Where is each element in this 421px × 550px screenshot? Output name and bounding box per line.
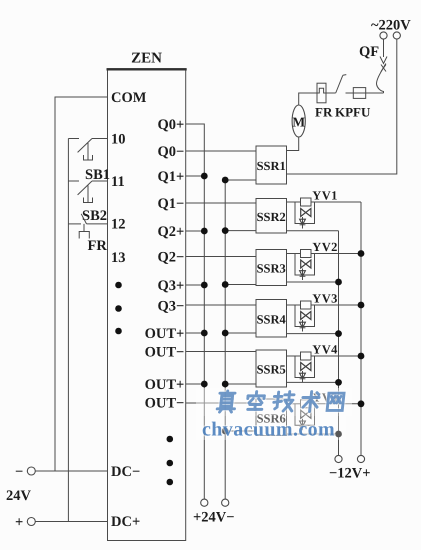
wire SSR output+ to YV3 coil xyxy=(287,304,301,306)
circuit breaker QF xyxy=(377,39,387,93)
terminal circle supply minus xyxy=(27,467,35,475)
thermal relay contact FR xyxy=(79,214,107,239)
wire OUT+ (1st) to left bus xyxy=(186,332,205,334)
wire minus bus (-12V) xyxy=(338,231,340,456)
svg-text:−12V+: −12V+ xyxy=(329,466,371,482)
flyback diode YV2 xyxy=(300,269,306,281)
wire supply plus to DC+ xyxy=(35,521,107,523)
wire SSR output- YV1 to minus bus xyxy=(287,230,339,232)
svg-text:+24V−: +24V− xyxy=(193,510,235,526)
wire YV1 coil to plus bus xyxy=(311,201,361,203)
wire OUT+ (2nd) to left bus xyxy=(186,383,205,385)
valve body YV3 xyxy=(301,312,311,320)
wire SSR1 output to 220V N xyxy=(287,39,397,174)
PLC ZEN box xyxy=(107,69,187,541)
svg-text:Q0+: Q0+ xyxy=(158,117,185,133)
wire Q3+ to left bus xyxy=(186,284,205,286)
svg-text:−: − xyxy=(15,464,23,480)
svg-text:Q2+: Q2+ xyxy=(158,224,185,240)
wire return bus to SSR6 input- xyxy=(225,430,256,432)
wire SSR output+ to YV2 coil xyxy=(287,253,301,255)
solid state relay SSR3 xyxy=(256,250,287,286)
svg-text:YV3: YV3 xyxy=(312,292,338,306)
ellipsis dots (outputs continuation) xyxy=(167,436,174,486)
flyback diode YV3 xyxy=(300,320,306,332)
wire Q2+ to left bus xyxy=(186,230,205,232)
solid state relay SSR1 xyxy=(256,146,287,184)
svg-text:DC−: DC− xyxy=(111,464,140,480)
wire return bus to SSR5 input- xyxy=(225,383,256,385)
wire return bus to SSR3 input- xyxy=(225,284,256,286)
flyback diode loop YV1 xyxy=(295,202,315,224)
wire Q0− to SSR input+ xyxy=(186,150,256,152)
svg-text:SSR2: SSR2 xyxy=(257,210,286,224)
wire FU to KP xyxy=(346,92,354,94)
svg-text:Q3+: Q3+ xyxy=(158,278,185,294)
svg-text:KP: KP xyxy=(335,105,353,120)
pushbutton SB2 (NO contact) xyxy=(78,181,108,203)
solenoid coil YV2 xyxy=(301,250,312,258)
svg-text:COM: COM xyxy=(111,90,147,106)
solid state relay SSR2 xyxy=(256,199,287,234)
terminal circle -12V xyxy=(335,455,342,462)
svg-text:24V: 24V xyxy=(6,488,32,504)
wire FR to motor xyxy=(299,93,317,105)
solid state relay SSR6 xyxy=(256,399,287,436)
terminal circle +24V xyxy=(201,499,208,506)
flyback diode YV1 xyxy=(300,217,306,229)
wire SSR output+ to YV1 coil xyxy=(287,201,301,203)
solid state relay SSR4 xyxy=(256,300,287,338)
flyback diode YV4 xyxy=(300,371,306,383)
solenoid coil YV1 xyxy=(301,198,312,206)
valve body YV5 xyxy=(301,410,311,418)
flyback diode loop YV4 xyxy=(295,356,315,378)
svg-text:Q0−: Q0− xyxy=(158,144,185,160)
wire YV2 coil to plus bus xyxy=(311,253,361,255)
terminal circle 24V minus xyxy=(222,499,229,506)
wire row 12 left segment xyxy=(68,223,81,225)
svg-text:OUT−: OUT− xyxy=(145,396,185,412)
flyback diode YV5 xyxy=(300,419,306,431)
wire Q3− to SSR input+ xyxy=(186,304,256,306)
solenoid coil YV4 xyxy=(301,352,312,360)
ellipsis dots (inputs continuation) xyxy=(115,282,122,335)
svg-text:SSR5: SSR5 xyxy=(257,363,286,377)
svg-text:QF: QF xyxy=(359,44,379,60)
svg-text:Q1+: Q1+ xyxy=(158,169,185,185)
svg-text:ZEN: ZEN xyxy=(131,51,162,67)
svg-text:OUT+: OUT+ xyxy=(145,326,185,342)
wire SSR output- YV5 to minus bus xyxy=(287,433,339,435)
terminal circle 220V L xyxy=(380,32,387,39)
svg-text:M: M xyxy=(292,115,305,130)
svg-text:SSR3: SSR3 xyxy=(257,262,286,276)
wire Q1+ to left bus xyxy=(186,175,205,177)
wire COM to supply minus xyxy=(55,97,108,471)
svg-text:~220V: ~220V xyxy=(371,18,411,34)
terminal circle 220V N xyxy=(393,32,400,39)
wire QF to fuse FU xyxy=(366,92,384,94)
svg-text:11: 11 xyxy=(111,174,125,190)
terminal circle supply plus xyxy=(27,518,35,526)
svg-text:FR: FR xyxy=(315,105,333,120)
wire SSR output+ to YV4 coil xyxy=(287,355,301,357)
wire KP to FR heater xyxy=(326,92,336,94)
node dots on plus bus xyxy=(358,250,365,407)
wire right return bus xyxy=(224,180,226,499)
svg-text:10: 10 xyxy=(111,132,126,148)
svg-text:Q3−: Q3− xyxy=(158,299,185,315)
wire input bus (switch common) xyxy=(67,139,69,522)
wire return bus to SSR2 input- xyxy=(225,230,256,232)
pressure switch contact KP xyxy=(336,75,347,93)
svg-text:YV4: YV4 xyxy=(312,343,338,357)
flyback diode loop YV5 xyxy=(295,404,315,426)
svg-text:12: 12 xyxy=(111,217,126,233)
thermal relay heater FR xyxy=(317,83,326,103)
wire SSR output- YV2 to minus bus xyxy=(287,281,339,283)
svg-text:YV1: YV1 xyxy=(312,189,338,203)
flyback diode loop YV3 xyxy=(295,305,315,327)
wire Q1− to SSR input+ xyxy=(186,202,256,204)
motor M xyxy=(292,105,305,137)
fuse FU xyxy=(353,88,365,99)
wire YV3 coil to plus bus xyxy=(311,304,361,306)
watermark wash (decorative) xyxy=(196,388,352,416)
wire Q2− to SSR input+ xyxy=(186,256,256,258)
svg-text:FR: FR xyxy=(88,238,108,254)
wire supply minus to DC- xyxy=(35,470,107,472)
flyback diode loop YV2 xyxy=(295,254,315,276)
solenoid coil YV5 xyxy=(301,400,312,408)
valve body YV2 xyxy=(301,260,311,268)
wire Q0+ to left bus xyxy=(186,124,205,499)
wire return bus to SSR4 input- xyxy=(225,332,256,334)
svg-text:Q1−: Q1− xyxy=(158,196,185,212)
svg-text:FU: FU xyxy=(353,105,371,120)
node dots on minus bus xyxy=(335,279,342,438)
pushbutton SB1 (NO contact) xyxy=(78,139,108,161)
wire SSR output- YV3 to minus bus xyxy=(287,333,339,335)
node dots on left bus xyxy=(201,173,208,388)
watermark (decorative) xyxy=(217,391,344,412)
svg-text:13: 13 xyxy=(111,250,126,266)
svg-text:OUT+: OUT+ xyxy=(145,377,185,393)
valve body YV4 xyxy=(301,363,311,371)
svg-text:YV2: YV2 xyxy=(312,240,338,254)
valve body YV1 xyxy=(301,209,311,217)
wire return bus to SSR1 input- xyxy=(225,179,256,181)
wire SSR output- YV4 to minus bus xyxy=(287,381,339,383)
wire YV5 coil to plus bus xyxy=(311,403,361,405)
wire motor to SSR1 output xyxy=(287,137,299,151)
svg-text:SSR4: SSR4 xyxy=(257,312,287,326)
terminal circle 12V+ xyxy=(357,455,364,462)
wire row 11 left segment xyxy=(68,180,79,182)
svg-text:+: + xyxy=(15,515,23,531)
svg-text:DC+: DC+ xyxy=(111,514,140,530)
solid state relay SSR5 xyxy=(256,350,287,387)
node dots on return bus xyxy=(222,177,229,435)
wire row 10 left segment xyxy=(68,138,79,140)
wire SSR output+ to YV5 coil xyxy=(287,403,301,405)
wire OUT− (1st) to SSR input+ xyxy=(186,351,256,353)
wire OUT− (2nd) to SSR input+ xyxy=(186,402,256,404)
svg-text:OUT−: OUT− xyxy=(145,345,185,361)
svg-text:chvacuum.com: chvacuum.com xyxy=(202,419,335,441)
solenoid coil YV3 xyxy=(301,301,312,309)
svg-text:SSR1: SSR1 xyxy=(257,159,286,173)
svg-text:Q2−: Q2− xyxy=(158,250,185,266)
wire YV4 coil to plus bus xyxy=(311,355,361,357)
wire plus bus (+12V) xyxy=(360,202,362,455)
